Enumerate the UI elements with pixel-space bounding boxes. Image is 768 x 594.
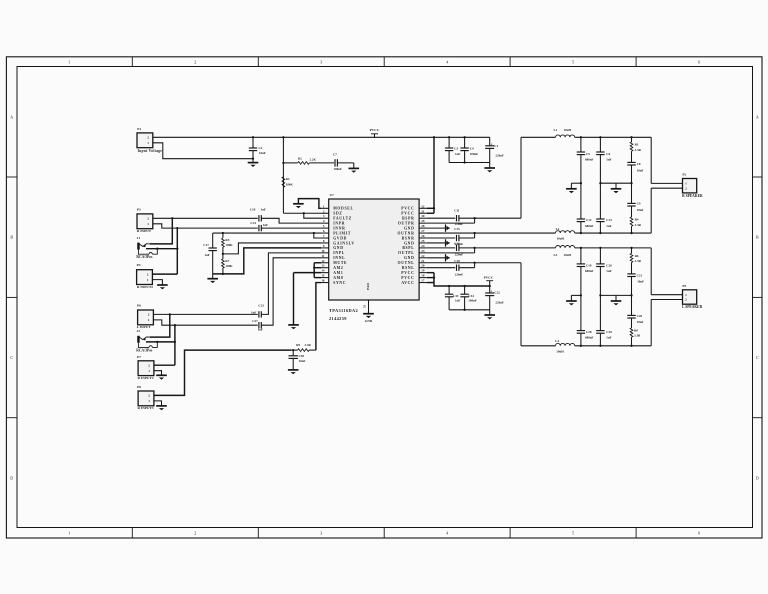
ground MUTE [288,324,299,326]
resistor R4 [630,217,633,226]
capacitor C3 [448,136,450,138]
svg-text:27: 27 [421,229,425,233]
capacitor C1 [489,137,491,146]
wire J2 ring riser [146,341,175,343]
svg-text:PVCC: PVCC [401,212,414,216]
svg-text:1: 1 [148,399,150,403]
ground top bank [489,163,491,169]
svg-text:16: 16 [321,279,325,283]
wire P7 pin1 to ground [154,371,162,376]
svg-text:1uF: 1uF [261,208,266,212]
capacitor C22 [489,286,491,293]
svg-text:C38: C38 [299,354,305,358]
svg-text:C29: C29 [606,330,612,334]
U7 pin 2 SDZ [321,212,329,214]
svg-text:1: 1 [68,60,70,65]
svg-text:OUTPL: OUTPL [398,251,414,255]
wire P8 pin2 riser to R9 row [154,350,291,395]
U7 pin 7 GVDD [321,237,329,239]
svg-text:100nF: 100nF [468,299,477,303]
svg-text:30: 30 [421,214,425,218]
svg-text:C6: C6 [606,152,610,156]
wire J1 tip riser [150,218,173,244]
wire P8 pin1 to ground [154,401,162,406]
svg-text:C8: C8 [637,162,641,166]
inductor L3 [556,246,575,248]
svg-text:GND: GND [404,256,414,260]
svg-text:TPA3116DA2: TPA3116DA2 [329,308,358,313]
svg-text:2: 2 [147,272,149,276]
svg-text:P1: P1 [137,127,141,131]
connector P8 [138,391,154,406]
svg-text:PVCC: PVCC [401,207,414,211]
svg-text:P2: P2 [682,173,686,177]
U7 pin 18 PVCC [419,277,427,279]
svg-text:1uF: 1uF [455,152,460,156]
svg-text:L1: L1 [554,128,558,132]
wire OUTPR riser to L1 [475,217,521,219]
capacitor C18 [427,267,455,269]
svg-text:GND: GND [365,319,373,323]
svg-text:1: 1 [148,369,150,373]
U7 pin 33 PAD [368,300,370,314]
ground below C38 [288,369,299,371]
wire J2 sleeve [138,343,149,348]
wire BSPL-OUTPL bracket [474,248,476,253]
svg-text:R4: R4 [635,218,639,222]
svg-text:FAULTZ: FAULTZ [333,217,352,221]
wire AVCC rail [434,283,490,286]
U7 pin 16 SYNC [321,282,329,284]
capacitor C29 [596,330,604,332]
U7 pin 15 AM0 [321,277,329,279]
wire MODSEL to ground [298,199,321,209]
connector P7 [138,361,154,376]
ground P4 [157,284,168,286]
svg-text:2: 2 [147,217,149,221]
svg-text:2: 2 [148,313,150,317]
svg-text:3.3R: 3.3R [305,343,312,347]
svg-text:20: 20 [421,264,425,268]
U7 pin 30 BSPR [419,217,427,219]
ground tap right L filter [615,295,617,301]
connector P1 [137,133,153,148]
ground pin22 [427,257,450,259]
svg-text:L SPEAKER: L SPEAKER [682,305,702,309]
svg-text:C4: C4 [470,147,474,151]
U7 pin 9 GND [321,247,329,249]
svg-text:INNR: INNR [333,226,345,230]
wire J1 sleeve [138,249,149,254]
svg-text:PVCC: PVCC [370,128,380,132]
svg-text:C15: C15 [454,227,460,231]
wire GVDD tie [314,233,321,238]
ground tap right R filter [615,183,617,189]
svg-text:C14: C14 [250,221,256,225]
svg-text:10uH: 10uH [556,349,564,353]
wire P6 pin2 to C23 [153,313,257,315]
U7 pin 31 PVCC [419,212,427,214]
svg-text:8: 8 [323,239,325,243]
wire C27 to INNL [261,258,321,325]
U7 pin 23 OUTPL [419,252,427,254]
capacitor C34 [463,285,465,287]
svg-text:100K: 100K [225,243,233,247]
capacitor C27 [258,322,260,328]
svg-text:OUTNR: OUTNR [397,231,414,235]
U7 pin 13 AM2 [321,267,329,269]
inductor L1 [521,136,556,138]
svg-text:C: C [756,355,759,360]
capacitor C7 [334,159,336,166]
svg-text:MODSEL: MODSEL [333,207,353,211]
svg-text:100K: 100K [225,264,233,268]
svg-text:1: 1 [685,293,687,297]
svg-text:R7: R7 [225,259,229,263]
U7 pin 11 INNL [321,257,329,259]
wire MUTE AM bracket [313,263,315,278]
wire GND pin9 path [213,248,321,274]
svg-text:1uF: 1uF [606,157,611,161]
wire P7 pin2 [154,364,175,366]
wire P3 pin2 to C10 [153,217,258,219]
svg-text:Input Voltage: Input Voltage [138,149,163,153]
ground right of C7 [353,163,355,169]
U7 pin 22 GND [419,257,427,259]
svg-text:10nF: 10nF [299,359,306,363]
svg-text:R SPEAKER: R SPEAKER [682,194,703,198]
ground AVCC bank [489,310,491,315]
capacitor C9 [631,183,633,203]
svg-text:11: 11 [321,254,324,258]
wire R gnd rail [599,182,601,184]
ground GND pad [363,313,374,315]
svg-text:R6: R6 [635,254,639,258]
svg-text:C21: C21 [637,274,643,278]
svg-text:BSNL: BSNL [402,266,415,270]
svg-text:23: 23 [421,249,425,253]
svg-text:INNL: INNL [333,256,345,260]
capacitor C38 [292,350,294,356]
svg-text:2: 2 [148,363,150,367]
U7 pin 4 INPR [321,222,329,224]
svg-text:MUTE: MUTE [333,261,347,265]
svg-text:PVCC: PVCC [484,275,494,279]
svg-text:2: 2 [685,186,687,190]
svg-text:P4: P4 [137,263,141,267]
svg-text:C10: C10 [250,208,256,212]
svg-text:R5: R5 [225,238,229,242]
svg-text:680nF: 680nF [585,157,594,161]
svg-text:4: 4 [323,219,325,223]
svg-text:15: 15 [321,274,325,278]
wire R9 to SYNC [316,283,321,351]
capacitor C13 [596,218,604,220]
capacitor C2 [252,136,254,138]
svg-text:C13: C13 [606,218,612,222]
wire L4 out to P5 pin2 [650,300,652,346]
ground below C17 [212,274,214,279]
ground P7 [156,374,167,376]
svg-text:1: 1 [148,318,150,322]
svg-text:7: 7 [323,234,325,238]
svg-text:10uH: 10uH [564,253,572,257]
svg-text:C34: C34 [468,294,474,298]
svg-text:2: 2 [194,60,196,65]
svg-text:+: + [491,142,493,146]
svg-text:1uF: 1uF [606,224,611,228]
svg-text:R INPUT2: R INPUT2 [138,376,154,380]
capacitor C16 [427,247,455,249]
resistor R9 [291,349,298,351]
wire PLIMIT row [213,232,321,234]
svg-text:12: 12 [321,259,325,263]
svg-text:1: 1 [147,222,149,226]
svg-text:GND: GND [404,241,414,245]
svg-text:PVCC: PVCC [401,276,414,280]
svg-text:RCA/3Pos: RCA/3Pos [136,255,153,259]
U7 pin 8 GAINSLV [321,242,329,244]
connector P2 [683,179,697,193]
svg-text:9: 9 [323,244,325,248]
svg-text:31: 31 [421,209,425,213]
svg-text:L2: L2 [556,227,560,231]
svg-text:220uF: 220uF [495,154,504,158]
wire OUTNL riser to L4 [427,262,475,264]
capacitor C10 [258,215,260,221]
svg-text:R2: R2 [298,156,302,160]
svg-text:L3: L3 [554,253,558,257]
svg-text:INPR: INPR [333,221,345,225]
svg-text:BSPR: BSPR [402,217,414,221]
U7 pin 14 AM1 [321,272,329,274]
wire C14 to INNR [261,227,321,229]
U7 pin 6 PLIMIT [321,232,329,234]
svg-text:17: 17 [421,279,425,283]
svg-text:B: B [10,235,13,240]
svg-text:C17: C17 [203,243,209,247]
wire J2 tip riser [150,314,170,337]
svg-text:GAINSLV: GAINSLV [333,241,355,245]
wire L1 out to P2 pin1 [650,137,652,183]
svg-text:1uF: 1uF [606,335,611,339]
svg-text:1uF: 1uF [258,328,263,332]
svg-text:6: 6 [698,531,700,536]
svg-text:100nF: 100nF [470,152,479,156]
U7 pin 26 BSNR [419,237,427,239]
svg-text:BSNR: BSNR [402,236,415,240]
svg-text:P6: P6 [137,304,141,308]
svg-text:2: 2 [147,136,149,140]
svg-text:OUTNL: OUTNL [398,261,415,265]
border frame [6,57,762,538]
capacitor C11 [427,217,455,219]
svg-text:C7: C7 [333,153,337,157]
svg-text:10nF: 10nF [637,320,644,324]
svg-text:1: 1 [147,278,149,282]
svg-text:10uF: 10uF [259,151,266,155]
capacitor C6 [599,136,601,138]
svg-text:10nF: 10nF [637,208,644,212]
svg-text:3: 3 [320,60,322,65]
svg-text:SYNC: SYNC [333,281,346,285]
U7 pin 27 OUTNR [419,232,427,234]
capacitor C20 [599,247,601,249]
svg-text:3.3R: 3.3R [634,334,641,338]
svg-text:10nF: 10nF [637,168,644,172]
U7 pin 24 BSPL [419,247,427,249]
svg-text:19: 19 [421,269,425,273]
U7 pin 28 GND [419,227,427,229]
wire J1 ring riser [146,248,177,250]
node PVCC branch [282,136,284,138]
svg-text:2: 2 [323,209,325,213]
capacitor C14 [258,225,260,231]
svg-text:C23: C23 [258,304,264,308]
svg-text:1uF: 1uF [251,310,256,314]
svg-text:OUTPR: OUTPR [398,221,415,225]
svg-text:BSPL: BSPL [402,246,414,250]
svg-text:A: A [756,115,759,120]
wire C10 to INPR [261,218,321,223]
svg-text:220nF: 220nF [455,272,464,276]
IC U7 TPA3116DA2 [329,199,419,300]
svg-text:P3: P3 [137,208,141,212]
wire BSNR-OUTNR bracket [474,233,476,238]
capacitor C4 [463,136,465,138]
svg-text:RCA/3Pos: RCA/3Pos [136,348,153,352]
svg-text:SDZ: SDZ [333,212,342,216]
capacitor C33 [448,285,450,287]
U7 pin 5 INNR [321,227,329,229]
svg-text:680nF: 680nF [585,335,594,339]
svg-text:C3: C3 [454,147,458,151]
resistor R1 [630,136,632,138]
svg-text:C20: C20 [606,263,612,267]
svg-text:3.3R: 3.3R [635,259,642,263]
svg-text:3: 3 [320,531,322,536]
svg-text:AM1: AM1 [333,271,343,275]
svg-text:J1: J1 [137,236,141,240]
capacitor C23 [258,311,260,317]
svg-text:C16: C16 [454,241,460,245]
wire PVCC riser pins 31-32 [433,137,435,213]
svg-text:GVDD: GVDD [333,236,347,240]
svg-text:R9: R9 [296,343,300,347]
svg-text:P5: P5 [682,284,686,288]
svg-text:10uH: 10uH [564,128,572,132]
svg-text:2144259: 2144259 [329,316,347,321]
U7 pin 20 BSNL [419,267,427,269]
svg-text:C1: C1 [494,144,498,148]
wire P6 pin1 to C27 row [153,320,257,325]
resistor R7 [222,254,224,259]
capacitor C19 [580,247,582,249]
wire P3 pin1 to C14 row [153,224,258,228]
U7 pin 1 MODSEL [321,207,329,209]
U7 pin 3 FAULTZ [321,217,329,219]
svg-text:1uF: 1uF [204,253,209,257]
ground pin28 [427,227,450,229]
svg-text:2.2K: 2.2K [310,158,317,162]
svg-text:21: 21 [421,259,425,263]
svg-text:1: 1 [147,141,149,145]
svg-text:C22: C22 [494,291,500,295]
svg-text:14: 14 [321,269,325,273]
svg-text:13: 13 [321,264,325,268]
svg-text:680nF: 680nF [585,224,594,228]
svg-text:26: 26 [421,234,425,238]
wire AVCC bracket pins 17-19 [433,273,435,283]
svg-text:C28: C28 [586,330,592,334]
ground tap left L filter [580,294,582,296]
svg-text:3.3R: 3.3R [635,223,642,227]
svg-text:D: D [756,475,759,480]
svg-text:D: D [10,475,13,480]
connector P5 [683,290,697,304]
U7 pin 19 PVCC [419,272,427,274]
svg-text:33: 33 [362,305,366,309]
svg-text:C12: C12 [586,218,592,222]
wire PVCC rail [153,136,490,138]
wire L2 out to P2 pin2 [650,188,652,233]
wire BSPR-OUTPR bracket [474,218,476,223]
ground tap left R filter [580,182,582,184]
ground below C2 [248,162,259,164]
svg-text:100nF: 100nF [333,167,342,171]
svg-text:P7: P7 [137,355,141,359]
svg-text:1uF: 1uF [455,299,460,303]
svg-text:R8: R8 [634,328,638,332]
svg-text:C19: C19 [586,263,592,267]
svg-text:5: 5 [572,531,574,536]
svg-text:220uF: 220uF [495,301,504,305]
svg-text:18: 18 [421,274,425,278]
ground MODSEL [293,203,304,205]
inductor L2 [556,231,575,233]
svg-text:22: 22 [421,254,425,258]
capacitor C28 [577,330,585,332]
svg-text:2: 2 [194,531,196,536]
svg-text:1uF: 1uF [263,223,268,227]
connector P4 [137,270,153,285]
svg-text:AM2: AM2 [333,266,343,270]
svg-text:C2: C2 [259,146,263,150]
resistor R6 [630,247,632,249]
wire L gnd rail [599,294,601,296]
svg-text:C5: C5 [586,152,590,156]
wire P4 pin2 [152,273,177,275]
svg-text:P8: P8 [137,385,141,389]
svg-text:3: 3 [323,214,325,218]
ground pin25 [427,242,450,244]
svg-text:R INPUT3: R INPUT3 [138,406,154,410]
svg-text:5: 5 [323,224,325,228]
wire FAULTZ tie [304,213,321,218]
svg-text:24: 24 [421,244,425,248]
svg-text:6: 6 [698,60,700,65]
svg-text:29: 29 [421,219,425,223]
svg-text:3.3R: 3.3R [635,148,642,152]
U7 pin 17 AVCC [419,282,427,284]
capacitor C8 [627,161,635,163]
svg-text:A: A [10,115,13,120]
capacitor C17 [212,233,214,248]
wire C23 to INPL [261,253,321,315]
U7 pin 12 MUTE [321,262,329,264]
svg-text:4: 4 [446,531,448,536]
svg-text:GND: GND [404,226,414,230]
